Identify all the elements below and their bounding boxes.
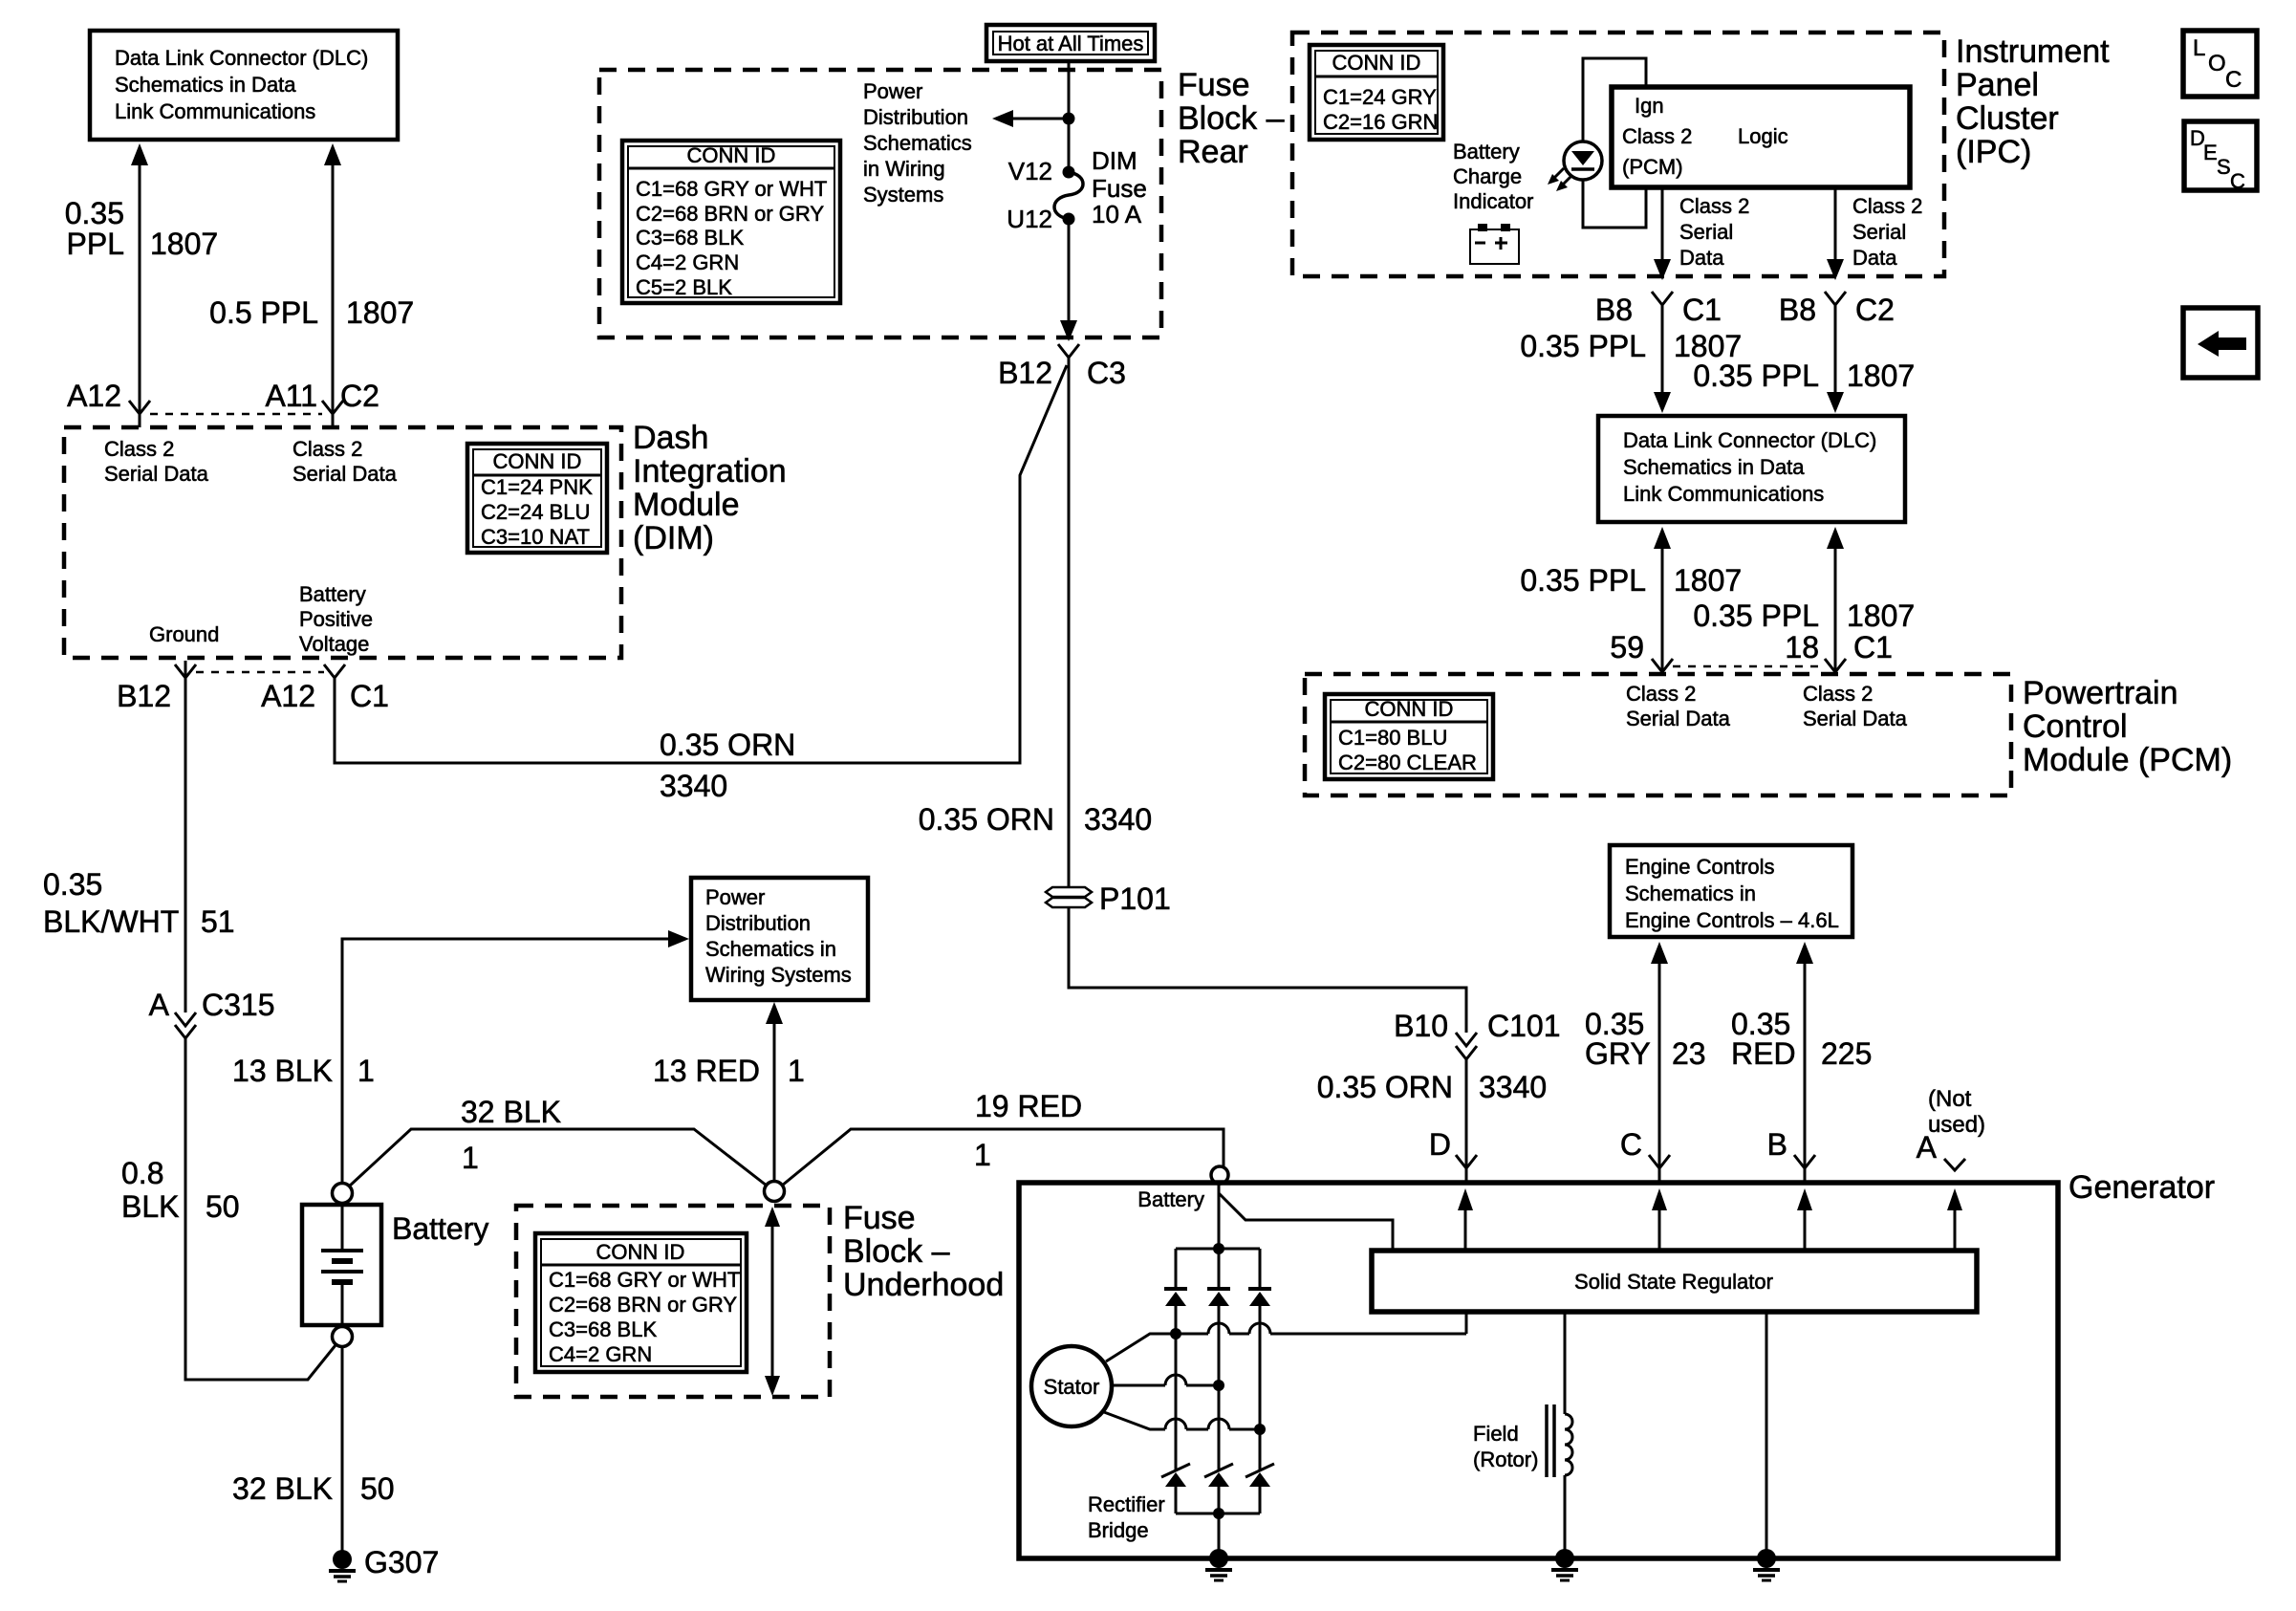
svg-text:used): used): [1928, 1112, 1985, 1138]
PCM pin function: Class 2 Serial Data (right): [1803, 682, 1908, 730]
svg-text:C1=68 GRY or WHT: C1=68 GRY or WHT: [636, 177, 827, 201]
IPC logic block: [1612, 87, 1910, 187]
svg-text:Ground: Ground: [149, 622, 219, 646]
svg-text:Systems: Systems: [863, 183, 943, 207]
svg-text:Control: Control: [2023, 708, 2128, 745]
connector pin 59 (PCM): [1610, 630, 1673, 672]
rectifier leg 1 lower diode: [1161, 1334, 1190, 1513]
svg-text:Link Communications: Link Communications: [115, 99, 315, 123]
in-line connector C101 pin B10 (double chevron): [1394, 1009, 1560, 1059]
feed box: Hot at All Times: [986, 25, 1155, 61]
wire: DIM C1 battery positive voltage 0.35 ORN 3340: [335, 365, 1067, 763]
svg-text:Battery: Battery: [299, 582, 366, 606]
nav icon: LOC box: [2183, 31, 2257, 97]
generator terminal C: [1620, 1127, 1670, 1168]
svg-text:0.35 PPL: 0.35 PPL: [1520, 329, 1646, 363]
svg-text:C2=16 GRN: C2=16 GRN: [1323, 110, 1438, 134]
svg-text:Battery: Battery: [1137, 1187, 1204, 1211]
label 0.35 GRY 23: [1585, 1007, 1706, 1071]
stator phase 3 wire to leg 3: [1104, 1412, 1266, 1435]
svg-text:23: 23: [1672, 1036, 1706, 1071]
connector pin A12 / C1 (DIM bottom, battery wire): [261, 664, 389, 713]
battery positive terminal (open circle): [333, 1184, 353, 1204]
svg-text:50: 50: [360, 1471, 395, 1506]
svg-text:Dash: Dash: [633, 420, 708, 456]
svg-text:Logic: Logic: [1738, 124, 1788, 148]
svg-text:1807: 1807: [346, 295, 414, 330]
svg-text:BLK: BLK: [121, 1189, 179, 1224]
svg-text:C2: C2: [1855, 293, 1895, 327]
label 0.35 ORN 3340 (horizontal run): [660, 728, 795, 803]
svg-text:C4=2 GRN: C4=2 GRN: [549, 1342, 652, 1366]
svg-text:A: A: [1917, 1130, 1938, 1165]
DIM pin function: Class 2 Serial Data (right): [292, 437, 398, 486]
wire: fuse output down to B12/C3: [1060, 219, 1077, 341]
svg-text:RED: RED: [1731, 1036, 1796, 1071]
module: Generator box: [1019, 1183, 2058, 1558]
svg-text:Engine Controls: Engine Controls: [1625, 855, 1775, 879]
svg-text:Indicator: Indicator: [1453, 189, 1533, 213]
Fuse Block Underhood title: [843, 1200, 1004, 1303]
wire: feed into fuse block rear: [1068, 61, 1071, 172]
wire: 13 BLK 1 battery positive to power distribution: [342, 930, 689, 1183]
generator terminal B: [1767, 1127, 1815, 1168]
svg-text:Block –: Block –: [843, 1233, 950, 1270]
svg-text:BLK/WHT: BLK/WHT: [43, 904, 179, 939]
fuse: DIM Fuse 10 A (terminals V12 / U12): [1007, 146, 1147, 233]
svg-text:0.35 ORN: 0.35 ORN: [919, 802, 1054, 837]
svg-text:C1=24 PNK: C1=24 PNK: [481, 475, 593, 499]
svg-text:Voltage: Voltage: [299, 632, 369, 656]
wire: rectifier to ground: [1218, 1513, 1221, 1551]
svg-text:Schematics in Data: Schematics in Data: [115, 73, 296, 97]
rectifier leg 1 upper + diode: [1164, 1249, 1187, 1334]
connector pin 18 / C1 (PCM): [1785, 630, 1893, 672]
ground (regulator): [1753, 1549, 1780, 1580]
module: Fuse Block Underhood dashed box: [516, 1206, 830, 1397]
svg-text:B12: B12: [117, 679, 171, 713]
connector mating dashed line (DIM bottom): [196, 671, 324, 674]
svg-text:Fuse: Fuse: [1092, 174, 1147, 203]
svg-text:C2=68 BRN or GRY: C2=68 BRN or GRY: [636, 202, 824, 226]
svg-text:C4=2 GRN: C4=2 GRN: [636, 250, 739, 274]
svg-text:C2=68 BRN or GRY: C2=68 BRN or GRY: [549, 1293, 737, 1317]
svg-text:CONN ID: CONN ID: [687, 143, 776, 167]
svg-text:Class 2: Class 2: [1622, 124, 1692, 148]
rectifier leg 3 lower diode: [1245, 1429, 1274, 1513]
svg-text:Serial Data: Serial Data: [1626, 707, 1731, 730]
wire arrow: regulator to D terminal: [1458, 1188, 1473, 1251]
wire: 0.35 ORN to generator D terminal: [1465, 1059, 1468, 1183]
wire: DIM A12 Class 2 serial data to DLC (0.35 PPL 1807): [131, 143, 148, 427]
svg-text:C315: C315: [202, 988, 275, 1022]
svg-text:32 BLK: 32 BLK: [232, 1471, 333, 1506]
generator battery stud terminal (open circle): [1211, 1166, 1228, 1184]
svg-text:Power: Power: [863, 79, 922, 103]
wire arrow: regulator to B terminal: [1797, 1188, 1812, 1251]
svg-text:3340: 3340: [660, 769, 727, 803]
svg-text:1: 1: [788, 1054, 805, 1088]
label 0.35 BLK/WHT 51: [43, 867, 235, 939]
reference box: Data Link Connector (DLC) Schematics (top-left): [90, 31, 398, 140]
svg-text:1: 1: [462, 1141, 479, 1175]
wire: 0.35 PPL 1807 IPC C2 to DLC: [1827, 305, 1844, 413]
svg-text:3340: 3340: [1479, 1070, 1547, 1104]
wire: 0.35 ORN 3340 fuse block rear to P101: [1068, 358, 1071, 886]
wire: IPC class 2 serial data (C2): [1827, 187, 1844, 280]
svg-text:Module (PCM): Module (PCM): [2023, 742, 2232, 778]
svg-text:0.35 ORN: 0.35 ORN: [1317, 1070, 1453, 1104]
connector pin B12 (DIM bottom, ground wire): [117, 664, 196, 713]
svg-text:50: 50: [206, 1189, 240, 1224]
svg-text:CONN ID: CONN ID: [1365, 697, 1454, 721]
label 0.35 PPL 1807 (IPC C1): [1520, 329, 1742, 363]
svg-text:CONN ID: CONN ID: [1332, 51, 1421, 75]
module: Instrument Panel Cluster (IPC) dashed box: [1292, 33, 1944, 276]
svg-text:DIM: DIM: [1092, 146, 1137, 175]
wire: 32 BLK 50 battery negative to G307: [341, 1347, 344, 1551]
svg-text:Schematics in: Schematics in: [705, 937, 836, 961]
svg-text:Class 2: Class 2: [1852, 194, 1922, 218]
svg-text:Cluster: Cluster: [1956, 100, 2059, 137]
ground (rectifier bridge): [1205, 1549, 1232, 1580]
svg-text:C1: C1: [1853, 630, 1893, 664]
svg-text:(DIM): (DIM): [633, 520, 714, 556]
wire: 13 RED 1 fuse block to power distribution: [766, 1002, 783, 1181]
svg-text:Generator: Generator: [2069, 1169, 2215, 1206]
battery negative terminal (open circle): [333, 1327, 353, 1347]
svg-text:Stator: Stator: [1044, 1375, 1100, 1399]
label: Battery Charge Indicator: [1453, 140, 1533, 213]
connector pin B8 / C1 (IPC): [1595, 292, 1722, 327]
svg-text:(Rotor): (Rotor): [1473, 1448, 1538, 1471]
solid state regulator: [1372, 1251, 1977, 1312]
svg-text:3340: 3340: [1084, 802, 1152, 837]
stator: [1031, 1346, 1112, 1426]
label 0.5 PPL 1807: [209, 295, 414, 330]
svg-text:C2: C2: [340, 379, 379, 413]
svg-text:0.35: 0.35: [43, 867, 102, 902]
svg-text:Rear: Rear: [1178, 134, 1248, 170]
label Class 2 Serial Data (IPC right): [1852, 194, 1922, 270]
wire: 0.35 PPL 1807 IPC C1 to DLC: [1654, 305, 1671, 413]
wire arrow: regulator to C terminal: [1652, 1188, 1667, 1251]
wire: IPC class 2 serial data (C1): [1654, 187, 1671, 280]
svg-text:A12: A12: [261, 679, 315, 713]
junction to power distribution: [1063, 113, 1075, 125]
svg-text:B: B: [1767, 1127, 1787, 1162]
wire: battery terminal to regulator: [1219, 1193, 1393, 1251]
svg-text:Rectifier: Rectifier: [1088, 1492, 1165, 1516]
svg-text:(IPC): (IPC): [1956, 134, 2031, 170]
svg-text:Schematics in: Schematics in: [1625, 882, 1756, 905]
svg-text:CONN ID: CONN ID: [596, 1240, 685, 1264]
svg-text:Schematics in Data: Schematics in Data: [1623, 455, 1805, 479]
svg-text:C3=10 NAT: C3=10 NAT: [481, 525, 590, 549]
svg-text:C: C: [1620, 1127, 1642, 1162]
battery: [302, 1205, 488, 1325]
connector pin B8 / C2 (IPC): [1779, 292, 1895, 327]
svg-text:C3: C3: [1087, 356, 1126, 390]
connector mating dashed line (DIM top): [150, 413, 322, 416]
svg-text:C3=68 BLK: C3=68 BLK: [549, 1317, 657, 1341]
rectifier leg 2 upper + diode: [1207, 1249, 1230, 1385]
svg-text:S: S: [2217, 155, 2231, 179]
connector pin B12 / C3 (fuse block rear bottom): [998, 344, 1126, 390]
nav icon: DESC box: [2184, 121, 2257, 193]
svg-text:O: O: [2208, 51, 2226, 76]
stator phase 1 wire to leg 1 and regulator: [1106, 1323, 1466, 1361]
svg-text:(PCM): (PCM): [1622, 155, 1683, 179]
svg-text:Class 2: Class 2: [104, 437, 174, 461]
battery icon (IPC telltale): [1470, 224, 1519, 264]
svg-text:Distribution: Distribution: [705, 911, 811, 935]
wire: LED loop to logic: [1583, 58, 1646, 228]
svg-text:Serial: Serial: [1679, 220, 1733, 244]
DIM CONN ID table: [467, 444, 607, 553]
wire: 19 RED 1 fuse block underhood to generator battery terminal: [782, 1129, 1224, 1186]
label Class 2 Serial Data (IPC left): [1679, 194, 1749, 270]
svg-text:Fuse: Fuse: [843, 1200, 916, 1236]
svg-text:E: E: [2203, 141, 2218, 164]
svg-text:1807: 1807: [1847, 359, 1915, 393]
svg-text:1: 1: [357, 1054, 375, 1088]
svg-text:13 RED: 13 RED: [653, 1054, 760, 1088]
svg-text:0.35 PPL: 0.35 PPL: [1693, 359, 1819, 393]
svg-text:P101: P101: [1099, 882, 1171, 916]
svg-text:U12: U12: [1007, 205, 1052, 233]
PCM title: [2023, 675, 2232, 778]
svg-text:CONN ID: CONN ID: [493, 449, 582, 473]
svg-text:Serial Data: Serial Data: [292, 462, 398, 486]
label 0.35 PPL 1807 (PCM 59): [1520, 563, 1742, 598]
svg-text:Data: Data: [1852, 246, 1897, 270]
wire: 0.8 BLK 50 from C315 to battery negative: [185, 1038, 336, 1380]
svg-text:A11: A11: [265, 379, 317, 413]
svg-text:Powertrain: Powertrain: [2023, 675, 2178, 711]
svg-text:Schematics: Schematics: [863, 131, 972, 155]
svg-text:Serial Data: Serial Data: [1803, 707, 1908, 730]
underhood CONN ID table: [535, 1233, 747, 1372]
svg-text:Instrument: Instrument: [1956, 33, 2110, 70]
svg-text:C2=24 BLU: C2=24 BLU: [481, 500, 590, 524]
svg-text:PPL: PPL: [67, 227, 124, 261]
svg-text:D: D: [1429, 1127, 1451, 1162]
wire: 0.35 PPL 1807 PCM 59 to DLC: [1654, 527, 1671, 672]
wire: battery terminal down into rectifier: [1218, 1184, 1221, 1249]
connector pin A11 / C2 (DIM top): [265, 379, 379, 414]
svg-text:0.8: 0.8: [121, 1156, 163, 1190]
wire: DIM B12 ground wire 0.35 BLK/WHT 51 down to C315: [184, 661, 187, 1012]
label 32 BLK 1: [461, 1095, 561, 1175]
label Rectifier Bridge: [1088, 1492, 1165, 1542]
svg-text:B8: B8: [1779, 293, 1816, 327]
svg-text:Class 2: Class 2: [1626, 682, 1696, 706]
svg-text:0.35: 0.35: [65, 196, 124, 230]
ground (field rotor): [1551, 1549, 1578, 1580]
wire: 0.35 PPL 1807 PCM 18/C1 to DLC: [1827, 527, 1844, 672]
svg-text:Underhood: Underhood: [843, 1267, 1004, 1303]
svg-text:Battery: Battery: [392, 1211, 488, 1246]
svg-text:C101: C101: [1487, 1009, 1561, 1043]
svg-text:225: 225: [1821, 1036, 1872, 1071]
module: Powertrain Control Module (PCM) dashed box: [1305, 674, 2011, 795]
label 0.35 ORN 3340 (below C101): [1317, 1070, 1547, 1104]
svg-text:C1=68 GRY or WHT: C1=68 GRY or WHT: [549, 1268, 740, 1292]
wire arrow to power distribution schematics (left): [992, 110, 1069, 127]
svg-text:1807: 1807: [150, 227, 218, 261]
wire: 0.35 RED 225 generator B to engine controls: [1796, 942, 1813, 1183]
svg-text:Distribution: Distribution: [863, 105, 968, 129]
label 13 BLK 1: [232, 1054, 375, 1088]
svg-text:B8: B8: [1595, 293, 1633, 327]
reference box: Power Distribution Schematics in Wiring Systems (lower): [691, 878, 868, 1000]
svg-text:L: L: [2193, 35, 2205, 61]
svg-text:Block –: Block –: [1178, 100, 1285, 137]
svg-text:G307: G307: [364, 1545, 439, 1579]
svg-text:0.35 ORN: 0.35 ORN: [660, 728, 795, 762]
wire: regulator sense to rectifier phase: [1465, 1312, 1468, 1334]
svg-text:Fuse: Fuse: [1178, 67, 1250, 103]
label (Not used): [1928, 1086, 1985, 1138]
label 13 RED 1: [653, 1054, 805, 1088]
IPC title: [1956, 33, 2110, 170]
fuse block rear CONN ID table: [622, 141, 840, 303]
svg-text:51: 51: [201, 904, 235, 939]
svg-text:Solid State Regulator: Solid State Regulator: [1574, 1270, 1773, 1294]
label 0.35 ORN 3340 (vertical run): [919, 802, 1152, 837]
generator terminal D: [1429, 1127, 1477, 1168]
stator phase 2 wire to leg 2: [1112, 1375, 1224, 1391]
svg-text:0.35 PPL: 0.35 PPL: [1520, 563, 1646, 598]
svg-text:Power: Power: [705, 885, 765, 909]
rectifier bottom bus: [1176, 1508, 1260, 1519]
svg-text:Link Communications: Link Communications: [1623, 482, 1824, 506]
wire: regulator ground leg: [1765, 1312, 1768, 1551]
svg-text:C: C: [2225, 67, 2242, 93]
svg-text:19 RED: 19 RED: [975, 1089, 1082, 1123]
svg-text:in Wiring: in Wiring: [863, 157, 945, 181]
DIM pin function: Battery Positive Voltage: [299, 582, 373, 656]
ground G307: [329, 1545, 439, 1581]
svg-text:C5=2 BLK: C5=2 BLK: [636, 275, 732, 299]
svg-text:Class 2: Class 2: [1803, 682, 1873, 706]
svg-text:Panel: Panel: [1956, 67, 2039, 103]
connector pin A12 (DIM top): [67, 379, 150, 414]
svg-text:C1=24 GRY: C1=24 GRY: [1323, 85, 1437, 109]
svg-text:32 BLK: 32 BLK: [461, 1095, 561, 1129]
wire: DIM A11 Class 2 serial data to DLC (0.5 PPL 1807): [324, 143, 341, 427]
rectifier bridge top bus: [1176, 1243, 1260, 1254]
svg-text:B12: B12: [998, 356, 1052, 390]
rectifier leg 3 upper + diode: [1248, 1249, 1271, 1429]
svg-text:Integration: Integration: [633, 453, 787, 490]
svg-text:Data: Data: [1679, 246, 1724, 270]
LED light arrows: [1548, 168, 1572, 191]
in-line connector C315 pin A (double chevron): [149, 988, 275, 1038]
svg-text:0.35 PPL: 0.35 PPL: [1693, 599, 1819, 633]
svg-text:C2=80 CLEAR: C2=80 CLEAR: [1338, 751, 1477, 774]
reference text: Power Distribution Schematics in Wiring Systems (upper): [863, 79, 972, 207]
nav icon: back arrow box: [2183, 308, 2258, 378]
grommet P101: [1046, 882, 1171, 916]
wire: 32 BLK 1 battery positive to fuse block underhood: [349, 1129, 767, 1186]
svg-text:C1: C1: [350, 679, 389, 713]
svg-text:A12: A12: [67, 379, 121, 413]
IPC CONN ID table: [1310, 45, 1443, 140]
svg-text:Positive: Positive: [299, 607, 373, 631]
svg-text:C1=80 BLU: C1=80 BLU: [1338, 726, 1447, 750]
svg-text:13 BLK: 13 BLK: [232, 1054, 333, 1088]
module: Fuse Block Rear dashed box: [599, 70, 1161, 337]
svg-text:Data Link Connector (DLC): Data Link Connector (DLC): [1623, 428, 1876, 452]
svg-text:1: 1: [974, 1138, 991, 1172]
svg-text:Module: Module: [633, 487, 740, 523]
svg-text:(Not: (Not: [1928, 1086, 1972, 1112]
wire arrow: regulator to A terminal: [1947, 1188, 1962, 1251]
svg-text:Serial Data: Serial Data: [104, 462, 209, 486]
field (rotor) coil: [1473, 1312, 1572, 1551]
svg-text:Engine Controls – 4.6L: Engine Controls – 4.6L: [1625, 908, 1839, 932]
svg-text:Charge: Charge: [1453, 164, 1522, 188]
charge indicator LED: [1564, 142, 1602, 180]
label 0.35 PPL 1807: [65, 196, 218, 261]
reference box: Data Link Connector (DLC) Schematics (right): [1598, 416, 1905, 522]
svg-text:B10: B10: [1394, 1009, 1448, 1043]
svg-text:Bridge: Bridge: [1088, 1518, 1149, 1542]
svg-text:Data Link Connector (DLC): Data Link Connector (DLC): [115, 46, 368, 70]
svg-text:C1: C1: [1682, 293, 1722, 327]
rectifier leg 2 lower diode: [1204, 1385, 1233, 1513]
svg-text:Field: Field: [1473, 1422, 1519, 1446]
label 0.35 PPL 1807 (IPC C2): [1693, 359, 1915, 393]
svg-text:Wiring Systems: Wiring Systems: [705, 963, 852, 987]
svg-text:Class 2: Class 2: [292, 437, 362, 461]
svg-text:0.5 PPL: 0.5 PPL: [209, 295, 318, 330]
svg-text:Battery: Battery: [1453, 140, 1520, 163]
fuse block underhood feed-through (double arrow): [765, 1207, 780, 1396]
svg-text:1807: 1807: [1674, 563, 1742, 598]
label 19 RED 1: [974, 1089, 1082, 1172]
svg-text:C3=68 BLK: C3=68 BLK: [636, 226, 744, 250]
DIM pin function: Class 2 Serial Data (left): [104, 437, 209, 486]
label 32 BLK 50: [232, 1471, 395, 1506]
PCM CONN ID table: [1325, 694, 1493, 779]
label 0.35 PPL 1807 (PCM 18): [1693, 599, 1915, 633]
svg-text:Hot at All Times: Hot at All Times: [998, 32, 1144, 55]
PCM pin function: Class 2 Serial Data (left): [1626, 682, 1731, 730]
svg-text:GRY: GRY: [1585, 1036, 1651, 1071]
label 0.8 BLK 50: [121, 1156, 240, 1224]
connector mating dashed line (PCM top): [1673, 665, 1825, 668]
module: Dash Integration Module (DIM) dashed box: [64, 427, 621, 658]
svg-text:Ign: Ign: [1635, 94, 1664, 118]
svg-text:Serial: Serial: [1852, 220, 1906, 244]
svg-text:10 A: 10 A: [1092, 200, 1142, 229]
svg-text:18: 18: [1785, 630, 1819, 664]
svg-text:1807: 1807: [1847, 599, 1915, 633]
svg-text:C: C: [2230, 169, 2245, 193]
DIM title: [633, 420, 787, 556]
reference box: Engine Controls Schematics: [1610, 845, 1852, 937]
wire: 0.35 GRY 23 generator C to engine controls: [1651, 942, 1668, 1183]
svg-text:Class 2: Class 2: [1679, 194, 1749, 218]
label 0.35 RED 225: [1731, 1007, 1872, 1071]
Fuse Block Rear title: [1178, 67, 1285, 170]
generator terminal A (not used): [1917, 1130, 1965, 1170]
fuse block underhood stud terminal (open circle): [765, 1182, 785, 1202]
svg-text:59: 59: [1610, 630, 1644, 664]
